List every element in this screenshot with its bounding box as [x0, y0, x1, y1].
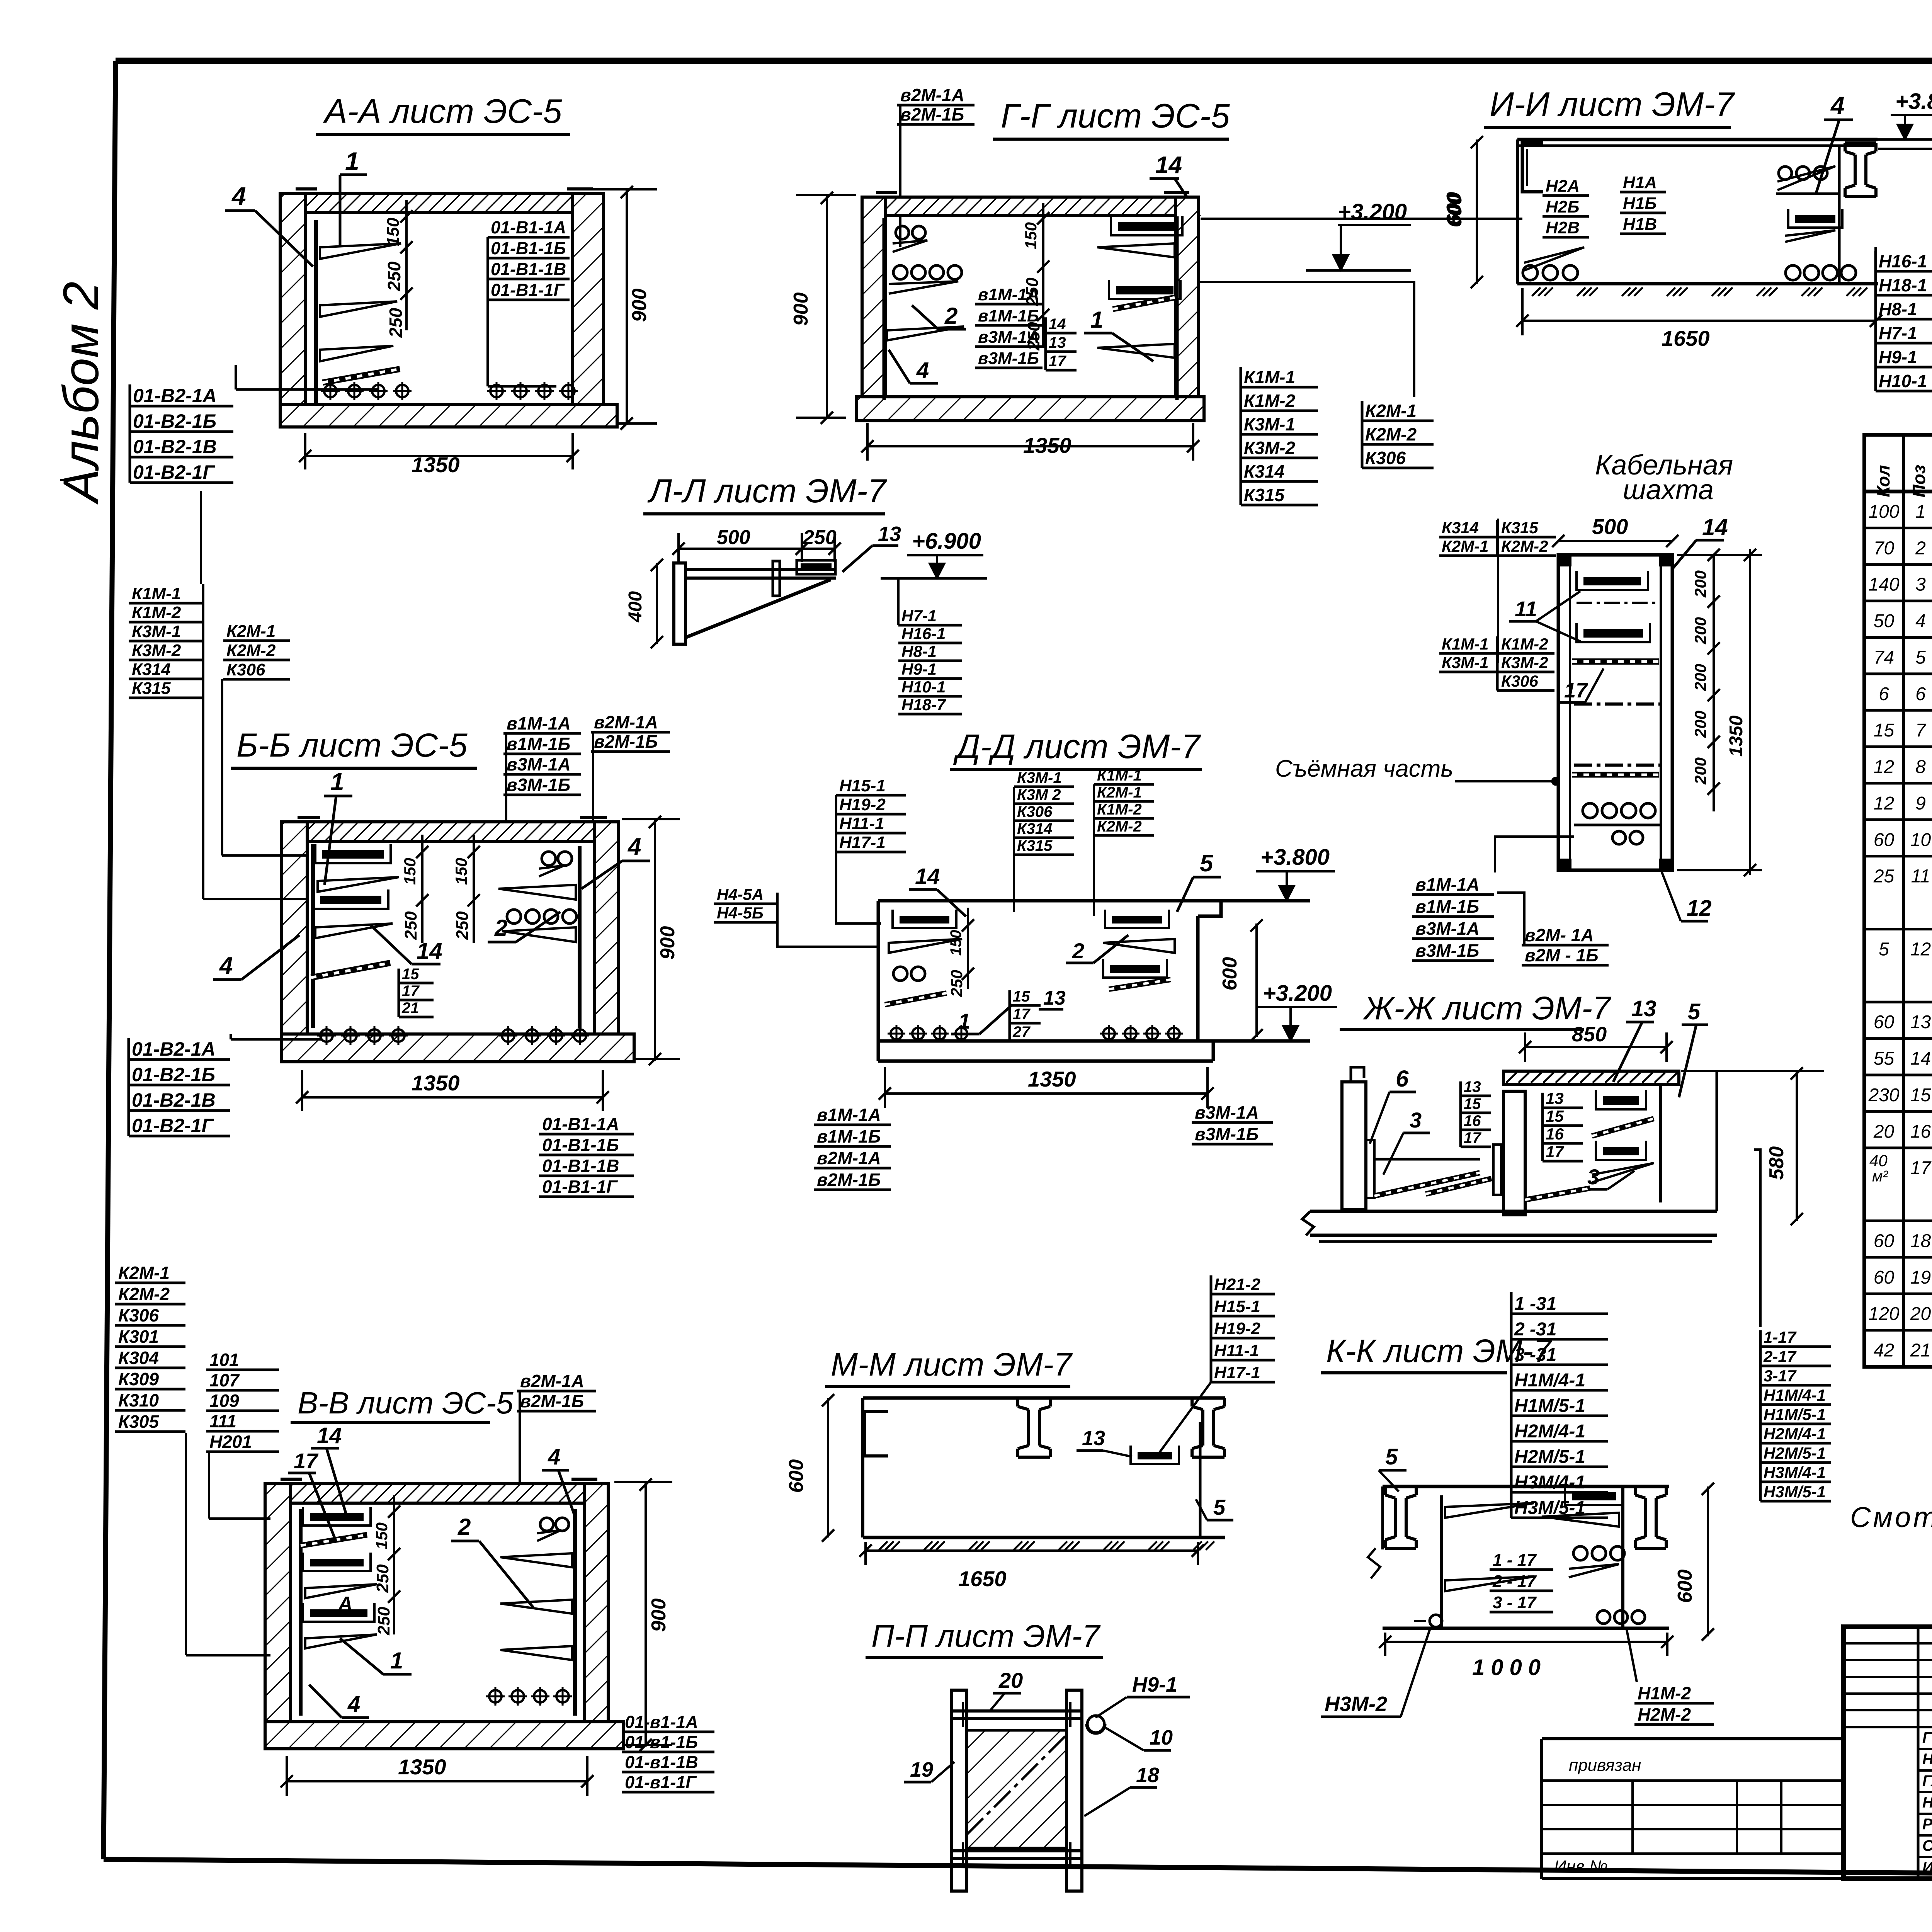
svg-text:в1М-1А: в1М-1А	[507, 713, 571, 733]
svg-text:в1М-1А: в1М-1А	[817, 1105, 881, 1125]
shaft 200 dims right	[1713, 555, 1715, 811]
section B-B concrete box	[281, 822, 307, 1060]
svg-text:П-П лист ЭМ-7: П-П лист ЭМ-7	[871, 1619, 1101, 1654]
svg-text:Н11-1: Н11-1	[839, 814, 884, 833]
svg-text:Н7-1: Н7-1	[901, 607, 937, 625]
svg-text:01-В2-1Б: 01-В2-1Б	[133, 410, 216, 432]
svg-text:К2М-1: К2М-1	[118, 1263, 170, 1283]
svg-text:в3М-1Б: в3М-1Б	[1195, 1124, 1259, 1144]
svg-text:250: 250	[386, 308, 406, 338]
G-G interior left: hooks and cables	[883, 218, 886, 400]
svg-text:Д-Д лист ЭМ-7: Д-Д лист ЭМ-7	[953, 727, 1201, 765]
svg-text:1350: 1350	[1726, 715, 1747, 757]
svg-text:5: 5	[1200, 850, 1214, 877]
svg-text:Инж: Инж	[1922, 1859, 1932, 1876]
svg-text:17: 17	[1464, 1129, 1481, 1146]
svg-text:900: 900	[628, 289, 651, 322]
svg-text:Н1М/4-1: Н1М/4-1	[1514, 1370, 1585, 1391]
svg-text:11: 11	[1515, 597, 1537, 621]
svg-text:Н1М/5-1: Н1М/5-1	[1764, 1405, 1826, 1423]
svg-text:01-В1-1А: 01-В1-1А	[491, 218, 566, 237]
svg-text:2: 2	[494, 915, 507, 941]
svg-text:150: 150	[384, 218, 403, 246]
svg-text:16: 16	[1464, 1112, 1481, 1129]
svg-text:01-В1-1А: 01-В1-1А	[542, 1114, 619, 1134]
I-I right cables bottom	[1786, 265, 1800, 280]
A-A inner dims 150/250/250	[405, 200, 408, 330]
svg-text:в3М-1Б: в3М-1Б	[507, 775, 570, 795]
svg-text:1350: 1350	[1023, 433, 1071, 457]
P-P rungs	[951, 1709, 1082, 1713]
svg-text:6: 6	[1879, 684, 1889, 704]
svg-text:Н2М/5-1: Н2М/5-1	[1764, 1444, 1826, 1462]
svg-text:5: 5	[1213, 1495, 1226, 1519]
svg-text:в3М-1А: в3М-1А	[507, 754, 571, 774]
svg-text:250: 250	[373, 1564, 392, 1593]
materials table	[1864, 435, 1932, 1367]
svg-text:60: 60	[1874, 830, 1895, 850]
svg-text:Н3М/4-1: Н3М/4-1	[1764, 1463, 1826, 1481]
svg-text:150: 150	[401, 858, 419, 885]
I-I top right shelf with cables	[1777, 166, 1835, 190]
svg-text:Н2А: Н2А	[1546, 177, 1580, 196]
svg-text:шахта: шахта	[1623, 474, 1714, 505]
I-I dim 1650	[1522, 320, 1876, 322]
svg-text:Альбом 2: Альбом 2	[53, 282, 109, 505]
svg-text:4: 4	[1915, 611, 1926, 631]
svg-text:3 - 17: 3 - 17	[1493, 1593, 1537, 1612]
svg-text:14: 14	[915, 864, 940, 889]
shaft tray 2	[1583, 629, 1643, 638]
svg-text:2: 2	[1072, 939, 1084, 963]
svg-text:250: 250	[401, 911, 420, 940]
svg-text:21: 21	[401, 1000, 419, 1017]
svg-text:К3М-1: К3М-1	[1017, 769, 1062, 786]
svg-text:13: 13	[1910, 1012, 1931, 1032]
svg-text:17: 17	[1013, 1006, 1031, 1023]
svg-text:Гл спец: Гл спец	[1922, 1772, 1932, 1789]
sheet frame	[116, 58, 1932, 64]
svg-text:А-А лист ЭС-5: А-А лист ЭС-5	[323, 92, 562, 130]
privyazan block	[1542, 1737, 1844, 1740]
svg-text:К306: К306	[1017, 803, 1053, 820]
svg-text:Н18-1: Н18-1	[1879, 275, 1927, 295]
svg-text:250: 250	[803, 526, 837, 549]
Zh dim 850	[1525, 1046, 1667, 1048]
D-D interior left	[900, 916, 949, 923]
P-P hook circle	[1087, 1716, 1104, 1733]
svg-text:К315: К315	[1017, 837, 1053, 854]
svg-text:120: 120	[1868, 1304, 1899, 1324]
svg-text:1350: 1350	[412, 1071, 460, 1095]
svg-text:в2М-1Б: в2М-1Б	[520, 1391, 584, 1411]
svg-text:К3М-2: К3М-2	[1244, 438, 1295, 458]
svg-text:в1М-1Б: в1М-1Б	[817, 1126, 881, 1146]
svg-text:200: 200	[1691, 570, 1709, 598]
svg-text:14: 14	[1155, 152, 1182, 179]
svg-text:Н19-2: Н19-2	[839, 795, 886, 814]
svg-text:01-В1-1Г: 01-В1-1Г	[542, 1177, 618, 1197]
Zh long leader to 1-17 stack	[1754, 1150, 1760, 1327]
svg-text:К304: К304	[118, 1348, 159, 1368]
svg-text:13: 13	[878, 522, 901, 546]
svg-text:К3М-2: К3М-2	[1501, 653, 1548, 672]
shaft dim 500	[1558, 540, 1672, 542]
svg-text:К1М-2: К1М-2	[1097, 801, 1142, 818]
svg-text:15: 15	[1546, 1107, 1564, 1125]
svg-text:250: 250	[947, 970, 966, 997]
L-L dims 500/250	[679, 548, 835, 550]
svg-text:17: 17	[1546, 1143, 1564, 1161]
svg-text:К2М-1: К2М-1	[1365, 401, 1417, 421]
I-I bottom floor line and ground hatch	[1517, 282, 1878, 286]
svg-text:Кол: Кол	[1873, 465, 1893, 497]
svg-text:600: 600	[1443, 192, 1465, 226]
svg-text:Н1А: Н1А	[1623, 173, 1657, 192]
Zh right wall and perf	[1659, 1084, 1662, 1202]
svg-text:20: 20	[1873, 1121, 1895, 1142]
section V-V concrete box	[265, 1484, 291, 1747]
Zh base slab	[1310, 1210, 1717, 1213]
svg-text:Н17-1: Н17-1	[839, 833, 886, 852]
svg-text:Н2М/5-1: Н2М/5-1	[1514, 1447, 1585, 1467]
svg-text:Нич отд: Нич отд	[1922, 1751, 1932, 1768]
svg-text:16: 16	[1910, 1121, 1931, 1142]
shaft perforated bar	[1572, 658, 1659, 665]
svg-text:К306: К306	[1365, 448, 1406, 468]
svg-text:Н8-1: Н8-1	[1879, 299, 1917, 319]
section A-A cable anchors	[324, 385, 337, 397]
svg-text:01-в1-1Б: 01-в1-1Б	[625, 1732, 698, 1752]
svg-text:Л-Л лист ЭМ-7: Л-Л лист ЭМ-7	[647, 473, 887, 510]
svg-text:Н Контр: Н Контр	[1922, 1794, 1932, 1811]
svg-text:Н16-1: Н16-1	[901, 624, 946, 643]
svg-text:в2М-1Б: в2М-1Б	[817, 1170, 881, 1190]
svg-text:14: 14	[1049, 316, 1066, 333]
shaft cables	[1583, 803, 1597, 818]
svg-text:12: 12	[1687, 896, 1712, 921]
G-G interior right: trays	[1175, 216, 1179, 400]
leader from G-G top tray right	[1201, 218, 1522, 220]
K-K break zigzag left	[1368, 1548, 1380, 1578]
svg-text:Н2Б: Н2Б	[1546, 197, 1579, 216]
svg-text:3: 3	[1410, 1108, 1422, 1132]
svg-text:1: 1	[330, 768, 344, 796]
Zh right trays	[1603, 1096, 1639, 1105]
svg-text:2: 2	[457, 1514, 471, 1540]
svg-text:Н1М-2: Н1М-2	[1638, 1683, 1691, 1703]
L-L wall bracket drawing	[674, 563, 685, 644]
Zh left bracket shelf	[1366, 1140, 1374, 1198]
svg-text:1350: 1350	[1028, 1067, 1076, 1091]
svg-text:Н3М/4-1: Н3М/4-1	[1514, 1472, 1585, 1493]
K-K cables right	[1573, 1546, 1587, 1560]
svg-text:К2М-2: К2М-2	[1365, 424, 1417, 444]
svg-text:Н1М/4-1: Н1М/4-1	[1764, 1386, 1826, 1404]
svg-text:21: 21	[1910, 1340, 1931, 1361]
svg-text:600: 600	[1219, 957, 1241, 991]
svg-text:Смотреть совместно с листами: Смотреть совместно с листами ЭМ-8, ЭМ-7	[1850, 1501, 1932, 1533]
svg-text:140: 140	[1868, 575, 1899, 595]
svg-text:20: 20	[1910, 1304, 1931, 1324]
svg-text:К314: К314	[1244, 461, 1284, 481]
svg-text:17: 17	[1049, 353, 1066, 370]
svg-text:4: 4	[231, 182, 246, 210]
svg-text:13: 13	[1043, 987, 1066, 1009]
svg-text:9: 9	[1915, 793, 1926, 814]
svg-text:К2М-2: К2М-2	[1501, 537, 1548, 555]
svg-text:200: 200	[1691, 757, 1709, 785]
svg-text:600: 600	[785, 1459, 808, 1493]
svg-text:600: 600	[1674, 1570, 1696, 1603]
svg-text:15: 15	[1464, 1095, 1481, 1112]
svg-text:60: 60	[1874, 1267, 1895, 1288]
svg-text:Н1Б: Н1Б	[1623, 194, 1656, 213]
svg-text:в3М-1Б: в3М-1Б	[978, 349, 1039, 368]
I-I interior verticals	[1516, 139, 1519, 284]
svg-text:привязан: привязан	[1569, 1756, 1641, 1775]
svg-text:1: 1	[345, 147, 359, 175]
V-V dim 900	[645, 1482, 647, 1747]
svg-text:13: 13	[1049, 334, 1066, 351]
svg-text:20: 20	[998, 1668, 1023, 1692]
svg-text:1-17: 1-17	[1764, 1328, 1797, 1346]
svg-text:15: 15	[1874, 720, 1895, 741]
svg-text:Н15-1: Н15-1	[839, 776, 886, 795]
svg-text:3 -31: 3 -31	[1514, 1345, 1556, 1365]
svg-text:250: 250	[453, 911, 472, 940]
svg-text:4: 4	[548, 1444, 560, 1469]
svg-text:К3М-1: К3М-1	[1442, 653, 1489, 672]
A-A dim 900	[626, 189, 628, 425]
svg-text:Н4-5А: Н4-5А	[717, 885, 764, 903]
svg-text:01-В2-1А: 01-В2-1А	[133, 385, 217, 406]
svg-text:13: 13	[1082, 1427, 1105, 1450]
svg-text:250: 250	[1024, 322, 1043, 351]
svg-text:2 -31: 2 -31	[1514, 1319, 1556, 1340]
title block outer	[1844, 1627, 1932, 1879]
svg-text:17: 17	[294, 1449, 319, 1473]
svg-text:3: 3	[1587, 1165, 1599, 1189]
svg-text:Н21-2: Н21-2	[1214, 1275, 1260, 1294]
svg-text:Н3М/5-1: Н3М/5-1	[1764, 1483, 1826, 1501]
svg-text:1000: 1000	[1472, 1655, 1547, 1680]
svg-text:Инв №: Инв №	[1554, 1857, 1608, 1876]
svg-text:в2М - 1Б: в2М - 1Б	[1525, 945, 1599, 965]
svg-text:К2М-2: К2М-2	[226, 641, 276, 660]
svg-text:+3.200: +3.200	[1263, 981, 1332, 1006]
svg-text:К1М-2: К1М-2	[132, 603, 181, 622]
svg-text:в2М-1А: в2М-1А	[900, 85, 964, 105]
section B-B interior right side	[578, 846, 582, 1028]
svg-text:К1М-2: К1М-2	[1244, 391, 1295, 411]
svg-text:в1М-1Б: в1М-1Б	[507, 734, 570, 754]
svg-text:Н3М-2: Н3М-2	[1325, 1692, 1387, 1716]
svg-text:Н2М/4-1: Н2М/4-1	[1514, 1421, 1585, 1442]
svg-text:14: 14	[417, 938, 442, 964]
svg-text:01-В1-1В: 01-В1-1В	[542, 1156, 619, 1176]
M-M tray	[1138, 1452, 1172, 1459]
svg-text:К2М-1: К2М-1	[226, 622, 276, 641]
svg-text:01-В1-1Б: 01-В1-1Б	[491, 238, 566, 258]
svg-text:580: 580	[1765, 1146, 1788, 1180]
svg-text:К3М 2: К3М 2	[1017, 786, 1061, 803]
svg-text:Н201: Н201	[209, 1432, 252, 1452]
svg-text:01-В1-1Г: 01-В1-1Г	[491, 280, 565, 300]
section G-G concrete box	[862, 197, 885, 418]
section A-A interior channel and shelves	[314, 220, 318, 406]
Zh left post with flag	[1351, 1067, 1364, 1082]
svg-text:К1М-1: К1М-1	[1244, 367, 1295, 387]
svg-text:в3М-1А: в3М-1А	[1415, 918, 1480, 939]
svg-text:900: 900	[656, 926, 679, 960]
M-M ceiling and I-beams	[863, 1396, 1225, 1400]
svg-text:В-В лист ЭС-5: В-В лист ЭС-5	[298, 1386, 514, 1420]
M-M walls and floor	[861, 1398, 864, 1537]
svg-text:К314: К314	[132, 660, 170, 679]
svg-text:Б-Б лист ЭС-5: Б-Б лист ЭС-5	[236, 727, 468, 764]
svg-text:1650: 1650	[1662, 326, 1710, 350]
svg-text:+3.800: +3.800	[1260, 845, 1330, 870]
shaft dashdot line 1	[1577, 602, 1661, 604]
B-B dim 900	[654, 819, 656, 1061]
svg-text:Н2М-2: Н2М-2	[1638, 1704, 1691, 1725]
svg-text:К315: К315	[1501, 519, 1539, 537]
I-I ceiling slab	[1517, 138, 1878, 141]
svg-text:4: 4	[627, 833, 641, 860]
M-M dim 1650	[866, 1549, 1198, 1552]
svg-text:К2М-2: К2М-2	[118, 1284, 170, 1304]
leader from 01-B2 stack to A-A floor	[235, 365, 237, 389]
svg-text:К306: К306	[1501, 672, 1539, 690]
svg-text:Н2М/4-1: Н2М/4-1	[1764, 1425, 1826, 1443]
svg-text:Н9-1: Н9-1	[1879, 347, 1917, 367]
svg-text:Н8-1: Н8-1	[901, 642, 937, 660]
table rows	[1864, 527, 1932, 529]
svg-text:К2М-2: К2М-2	[1097, 818, 1142, 835]
V-V dim 1350	[287, 1780, 587, 1782]
svg-text:70: 70	[1874, 538, 1895, 558]
svg-text:250: 250	[1023, 277, 1042, 306]
shaft 1350 dim right	[1749, 549, 1751, 875]
svg-text:19: 19	[910, 1758, 933, 1781]
svg-text:25: 25	[1873, 866, 1895, 887]
svg-text:8: 8	[1915, 757, 1926, 777]
svg-text:Н2В: Н2В	[1546, 218, 1580, 237]
svg-text:01-в1-1А: 01-в1-1А	[625, 1712, 698, 1732]
svg-text:К314: К314	[1442, 519, 1479, 537]
svg-text:1: 1	[1915, 502, 1926, 522]
svg-text:Ст инж: Ст инж	[1922, 1837, 1932, 1854]
svg-text:3: 3	[1915, 575, 1926, 595]
svg-text:К1М-2: К1М-2	[1501, 635, 1548, 653]
I-I left shelf+cables	[1524, 247, 1584, 270]
svg-text:1 -31: 1 -31	[1514, 1294, 1556, 1314]
svg-text:в2М-1А: в2М-1А	[817, 1148, 881, 1168]
svg-text:17: 17	[1910, 1158, 1932, 1179]
svg-text:500: 500	[717, 526, 750, 549]
svg-text:01-В2-1Б: 01-В2-1Б	[132, 1064, 215, 1085]
svg-text:17: 17	[402, 983, 420, 1000]
D-D interior right	[1112, 916, 1162, 923]
signature rows	[1918, 1748, 1932, 1750]
svg-text:4: 4	[347, 1692, 360, 1717]
svg-text:Н1В: Н1В	[1623, 215, 1657, 234]
K-K tray top right	[1572, 1492, 1616, 1500]
leader lines from left stacks into B-B	[202, 584, 204, 899]
svg-text:6: 6	[1915, 684, 1926, 704]
svg-text:15: 15	[1910, 1085, 1931, 1105]
svg-text:11: 11	[1911, 866, 1930, 887]
P-P ladder posts	[951, 1690, 967, 1891]
D-D dims 150/250	[967, 908, 969, 989]
svg-text:в2М-1Б: в2М-1Б	[900, 104, 964, 124]
svg-text:10: 10	[1150, 1726, 1173, 1749]
svg-text:150: 150	[1022, 222, 1040, 249]
svg-text:Н4-5Б: Н4-5Б	[717, 904, 764, 922]
svg-text:1350: 1350	[412, 452, 460, 477]
section V-V right side	[573, 1509, 577, 1716]
svg-text:01-В1-1В: 01-В1-1В	[491, 259, 566, 279]
svg-text:14: 14	[317, 1423, 342, 1448]
svg-text:900: 900	[790, 293, 812, 326]
svg-text:К315: К315	[1244, 485, 1285, 505]
svg-text:40: 40	[1869, 1151, 1888, 1170]
svg-text:Н1М/5-1: Н1М/5-1	[1514, 1396, 1585, 1416]
leader from G-G tray to K2M stack	[1199, 282, 1414, 397]
svg-text:Н16-1: Н16-1	[1879, 251, 1927, 271]
svg-text:111: 111	[209, 1411, 236, 1431]
section V-V interior trays left	[299, 1509, 303, 1716]
svg-text:в3М-1А: в3М-1А	[1195, 1102, 1259, 1122]
svg-text:Н10-1: Н10-1	[901, 678, 946, 696]
svg-text:Н9-1: Н9-1	[901, 660, 937, 678]
svg-text:6: 6	[1396, 1066, 1409, 1092]
svg-text:5: 5	[1385, 1444, 1398, 1469]
B-B dims 150/250 right chain	[473, 835, 475, 943]
K-K left shelves	[1445, 1503, 1534, 1518]
svg-text:60: 60	[1874, 1231, 1895, 1251]
shaft box	[1558, 555, 1672, 870]
svg-text:01-в1-1Г: 01-в1-1Г	[625, 1772, 697, 1792]
Zh middle post	[1503, 1091, 1525, 1215]
svg-text:в2М-1А: в2М-1А	[594, 712, 658, 732]
svg-text:М-М лист ЭМ-7: М-М лист ЭМ-7	[831, 1346, 1073, 1383]
svg-text:01-в1-1В: 01-в1-1В	[625, 1752, 698, 1772]
svg-text:К306: К306	[226, 660, 265, 679]
svg-text:18: 18	[1136, 1764, 1159, 1787]
svg-text:ГИП: ГИП	[1922, 1729, 1932, 1746]
svg-text:К3М-2: К3М-2	[132, 641, 181, 660]
K-K dim 1000	[1385, 1641, 1667, 1643]
svg-text:16: 16	[1546, 1125, 1564, 1143]
svg-text:К305: К305	[118, 1412, 159, 1432]
svg-text:50: 50	[1874, 611, 1895, 631]
B-B dims 150/250 left chain	[421, 835, 423, 943]
svg-text:И-И лист ЭМ-7: И-И лист ЭМ-7	[1490, 85, 1735, 123]
Zh right vertical line and 580 dim	[1716, 1072, 1718, 1211]
svg-text:3-17: 3-17	[1764, 1367, 1797, 1385]
svg-text:01-В2-1Г: 01-В2-1Г	[132, 1115, 214, 1136]
svg-text:200: 200	[1691, 617, 1709, 645]
svg-text:14: 14	[1910, 1049, 1931, 1069]
G-G dim 1350	[867, 445, 1193, 447]
P-P hatched panel	[967, 1730, 1066, 1848]
svg-text:в2М-1Б: в2М-1Б	[594, 731, 658, 752]
svg-text:250: 250	[374, 1607, 393, 1636]
svg-text:Н7-1: Н7-1	[1879, 323, 1917, 343]
svg-text:+6.900: +6.900	[912, 529, 981, 554]
